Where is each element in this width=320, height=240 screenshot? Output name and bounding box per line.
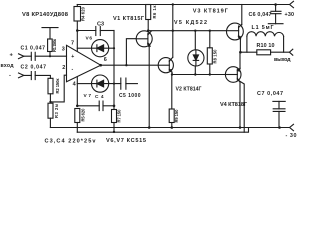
svg-text:C5 1000: C5 1000 bbox=[119, 93, 141, 99]
wire R4 to node bbox=[76, 21, 78, 31]
node V2 emitter junction bbox=[171, 73, 173, 75]
wire bottom rail B bbox=[77, 128, 248, 133]
resistor R8 bbox=[207, 48, 212, 64]
node junction pin7 bbox=[76, 29, 79, 32]
resistor R2 bbox=[48, 78, 53, 94]
capacitor C5 bbox=[121, 78, 126, 89]
svg-text:-: - bbox=[72, 67, 74, 73]
node +30 terminal arrow bbox=[290, 1, 294, 7]
wire extra collector branch bbox=[239, 81, 244, 133]
node V6 column junction bbox=[113, 47, 115, 49]
wire V1 emitter long riser bbox=[148, 46, 150, 128]
capacitor C2 bbox=[31, 72, 35, 80]
node -30 terminal arrow bbox=[290, 124, 294, 130]
node input+ arrow bbox=[19, 54, 24, 59]
wire bottom rail A bbox=[50, 127, 289, 129]
svg-text:R1 150к: R1 150к bbox=[52, 38, 57, 52]
node output bus junction bbox=[239, 51, 242, 54]
node output apex junction bbox=[99, 64, 102, 67]
svg-text:C6 0,047: C6 0,047 bbox=[249, 12, 272, 18]
wire V2 emitter to row bbox=[171, 72, 173, 75]
ground bar C6 bbox=[268, 23, 283, 25]
node V5 bottom junction bbox=[194, 73, 196, 75]
capacitor C3 bbox=[77, 30, 96, 32]
wire top +30 rail bbox=[77, 4, 289, 6]
svg-text:V5 КД522: V5 КД522 bbox=[174, 20, 207, 26]
ground bar R1 top bbox=[42, 27, 58, 29]
wire V3 emitter riser bbox=[239, 38, 241, 52]
wire V1 base riser bbox=[126, 39, 136, 65]
svg-text:+: + bbox=[10, 53, 14, 59]
svg-text:C3,C4 220*25v: C3,C4 220*25v bbox=[45, 138, 97, 144]
node C4 right junction bbox=[113, 105, 116, 108]
node V1 base junction bbox=[125, 64, 127, 66]
svg-text:V6,V7 КС515: V6,V7 КС515 bbox=[106, 138, 146, 144]
resistor R5 bbox=[75, 109, 80, 123]
wire V4 emitter riser bbox=[239, 52, 241, 68]
node V2 collector rail junction bbox=[172, 3, 174, 5]
svg-text:V3 КТ819Г: V3 КТ819Г bbox=[193, 9, 229, 15]
svg-text:- 30: - 30 bbox=[286, 133, 297, 139]
svg-text:R3 2м: R3 2м bbox=[54, 104, 59, 118]
svg-text:3: 3 bbox=[62, 47, 65, 53]
wire pin4 lead bbox=[76, 77, 78, 106]
svg-text:C1 0,047: C1 0,047 bbox=[21, 45, 46, 51]
inductor L1 bbox=[247, 36, 284, 52]
svg-text:R10 10: R10 10 bbox=[257, 43, 275, 49]
node R9 rail junction bbox=[171, 126, 174, 129]
svg-text:выход: выход bbox=[274, 57, 291, 63]
capacitor C1 bbox=[31, 52, 35, 60]
op-amp U V8 triangle bbox=[67, 45, 101, 81]
capacitor C4 bbox=[77, 105, 99, 107]
resistor R9 bbox=[169, 109, 174, 123]
wire op-amp output bus bbox=[101, 64, 159, 66]
svg-text:2: 2 bbox=[62, 65, 65, 71]
transistor V2 bbox=[158, 58, 173, 73]
resistor R6 bbox=[146, 5, 151, 20]
svg-text:7: 7 bbox=[71, 40, 74, 46]
node V7 column junction bbox=[113, 83, 115, 85]
svg-text:C7 0,047: C7 0,047 bbox=[257, 91, 283, 97]
zener V6 bbox=[77, 47, 91, 49]
svg-text:4: 4 bbox=[73, 81, 77, 87]
transistor V4 bbox=[225, 67, 241, 83]
svg-text:+: + bbox=[71, 54, 74, 60]
node R8 bottom junction bbox=[209, 73, 211, 75]
svg-text:V7: V7 bbox=[84, 93, 92, 99]
svg-text:V6: V6 bbox=[86, 36, 93, 42]
svg-text:R8 150: R8 150 bbox=[213, 49, 218, 64]
wire output bus bbox=[240, 51, 289, 53]
capacitor C7 bbox=[273, 100, 285, 102]
wire V2 collector riser to top rail bbox=[172, 5, 174, 58]
wire pin7 lead bbox=[76, 31, 78, 52]
wire V1 collector to V3 base bbox=[148, 30, 226, 32]
transistor V3 bbox=[227, 23, 244, 40]
svg-text:-: - bbox=[9, 72, 11, 78]
node V5 top junction bbox=[194, 30, 196, 32]
node R1 junction bbox=[49, 55, 51, 57]
node R8 top junction bbox=[209, 30, 211, 32]
wire zener common column bbox=[113, 31, 115, 106]
svg-text:C4: C4 bbox=[95, 94, 104, 100]
transistor V1 bbox=[136, 31, 152, 47]
resistor R4 bbox=[74, 7, 81, 22]
wire input- row bbox=[24, 75, 50, 78]
diode V5 bbox=[194, 31, 196, 50]
node output terminal arrow bbox=[289, 49, 292, 55]
node V2 collector H3 junction bbox=[172, 30, 174, 32]
node C7 rail junction bbox=[278, 126, 281, 129]
node V4 collector rail junction bbox=[239, 126, 242, 129]
svg-text:R7 150: R7 150 bbox=[116, 109, 121, 123]
node feedback junction bbox=[49, 101, 51, 103]
svg-text:L1 5мГ: L1 5мГ bbox=[252, 25, 274, 31]
svg-text:R5 620: R5 620 bbox=[80, 108, 85, 122]
node R6 bottom junction bbox=[147, 29, 150, 32]
svg-text:V4 КТ818Г: V4 КТ818Г bbox=[220, 102, 248, 108]
svg-text:R4 620: R4 620 bbox=[80, 6, 85, 21]
svg-text:C3: C3 bbox=[97, 22, 104, 28]
wire pin3 input bbox=[24, 55, 67, 57]
zener V7 bbox=[77, 83, 91, 85]
svg-text:C2 0,047: C2 0,047 bbox=[21, 65, 47, 71]
wire V4 collector riser bbox=[239, 81, 240, 128]
node R7 rail B junction bbox=[113, 131, 115, 133]
svg-text:V1 КТ815Г: V1 КТ815Г bbox=[113, 16, 145, 22]
svg-text:R9 150: R9 150 bbox=[174, 109, 179, 123]
resistor R1 bbox=[48, 39, 53, 52]
svg-text:R6 1к: R6 1к bbox=[152, 5, 157, 19]
capacitor C6 bbox=[274, 3, 277, 6]
node pin4 C4 junction bbox=[76, 105, 79, 108]
svg-text:V2 КТ814Г: V2 КТ814Г bbox=[176, 87, 202, 93]
resistor R7 bbox=[112, 110, 117, 123]
wire pin2 jog bbox=[50, 75, 66, 102]
svg-text:вход: вход bbox=[1, 63, 15, 69]
svg-text:6: 6 bbox=[104, 57, 107, 63]
svg-text:+30: +30 bbox=[285, 12, 295, 18]
resistor R10 bbox=[257, 50, 271, 55]
wire V3 collector riser bbox=[241, 5, 243, 25]
node input- arrow bbox=[19, 73, 24, 78]
node V1 emitter rail junction bbox=[148, 126, 151, 129]
wire V2 emitter row to V4 base bbox=[172, 74, 225, 76]
svg-text:R2 150к: R2 150к bbox=[55, 78, 60, 94]
svg-text:V8 КР140УД808: V8 КР140УД808 bbox=[22, 12, 69, 18]
resistor R3 bbox=[48, 103, 53, 118]
